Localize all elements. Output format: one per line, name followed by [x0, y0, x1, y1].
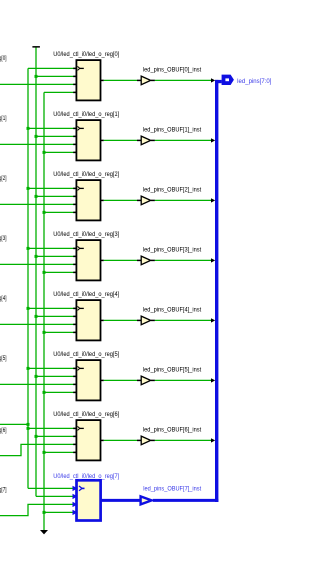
- junction B row 6: [35, 435, 38, 438]
- svg-text:g[7]: g[7]: [0, 487, 7, 493]
- svg-text:U0/led_ctl_i0/led_o_reg[6]: U0/led_ctl_i0/led_o_reg[6]: [53, 412, 119, 418]
- wire buffer output to bus row 1: [151, 139, 155, 141]
- junction A row 1: [27, 127, 30, 130]
- wire clock pin row 4: [28, 307, 77, 309]
- wire clock pin row 6: [28, 427, 77, 429]
- wire data pin3 row 6 from left edge (bend): [0, 444, 77, 455]
- svg-text:g[6]: g[6]: [0, 428, 7, 434]
- register U0/led_ctl_i0/led_o_reg[6]: [73, 420, 104, 460]
- wire clock pin row 5: [28, 367, 77, 369]
- junction A row 5: [27, 367, 30, 370]
- svg-text:led_pins[7:0]: led_pins[7:0]: [237, 79, 272, 85]
- junction A row 2: [27, 187, 30, 190]
- junction C row 4: [43, 331, 46, 334]
- junction B row 4: [35, 315, 38, 318]
- junction C row 7: [43, 511, 46, 514]
- wire clock pin row 2: [28, 187, 77, 189]
- buffer led_pins_OBUF[0]_inst: [141, 76, 151, 85]
- junction C row 1: [43, 151, 46, 154]
- junction A row 6: [27, 427, 30, 430]
- junction B row 2: [35, 195, 38, 198]
- buffer led_pins_OBUF[6]_inst: [141, 436, 151, 445]
- wire clk feed from left edge: [0, 423, 28, 425]
- svg-text:g[1]: g[1]: [0, 116, 7, 122]
- wire pin2 row 6: [36, 435, 77, 437]
- wire buffer output to bus row 6: [151, 439, 155, 441]
- wire net vertical B: [35, 47, 37, 496]
- wire pin2 row 0: [36, 75, 77, 77]
- wire register output to buffer row 0: [104, 79, 137, 81]
- port led_pins[7:0] symbol: [222, 75, 234, 85]
- wire clock pin row 7: [28, 487, 77, 489]
- wire net clk vertical A: [27, 68, 29, 488]
- wire pin2 row 2: [36, 195, 77, 197]
- svg-text:U0/led_ctl_i0/led_o_reg[0]: U0/led_ctl_i0/led_o_reg[0]: [53, 52, 119, 58]
- wire pin2 row 5: [36, 375, 77, 377]
- wire data pin3 row 3 from left edge: [0, 263, 77, 265]
- arrowhead into bus row 2: [211, 198, 215, 202]
- register U0/led_ctl_i0/led_o_reg[4]: [73, 300, 104, 340]
- svg-text:g[5]: g[5]: [0, 356, 7, 362]
- arrowhead into bus row 6: [211, 438, 215, 442]
- wire pin4 row 6: [44, 451, 77, 453]
- off-page arrow (net C bottom): [40, 530, 48, 534]
- svg-text:led_pins_OBUF[3]_inst: led_pins_OBUF[3]_inst: [143, 248, 202, 254]
- svg-text:U0/led_ctl_i0/led_o_reg[7]: U0/led_ctl_i0/led_o_reg[7]: [53, 474, 119, 480]
- register U0/led_ctl_i0/led_o_reg[2]: [73, 180, 104, 220]
- wire register output to buffer row 1: [104, 139, 137, 141]
- junction B row 1: [35, 135, 38, 138]
- wire data pin3 row 0 from left edge: [0, 83, 77, 85]
- svg-text:led_pins_OBUF[0]_inst: led_pins_OBUF[0]_inst: [143, 68, 202, 74]
- wire pin4 row 1: [44, 151, 77, 153]
- junction B row 5: [35, 375, 38, 378]
- junction C row 2: [43, 211, 46, 214]
- arrowhead into bus row 1: [211, 138, 215, 142]
- svg-text:led_pins_OBUF[2]_inst: led_pins_OBUF[2]_inst: [143, 188, 202, 194]
- junction clk feed on A: [27, 423, 30, 426]
- wire pin4 row 0: [44, 91, 77, 93]
- register U0/led_ctl_i0/led_o_reg[0]: [73, 60, 104, 100]
- svg-text:led_pins_OBUF[5]_inst: led_pins_OBUF[5]_inst: [143, 368, 202, 374]
- off-page T terminal (net B top): [32, 46, 40, 48]
- arrowhead into bus row 3: [211, 258, 215, 262]
- svg-text:led_pins_OBUF[4]_inst: led_pins_OBUF[4]_inst: [143, 308, 202, 314]
- buffer led_pins_OBUF[5]_inst: [141, 376, 151, 385]
- svg-text:g[2]: g[2]: [0, 176, 7, 182]
- svg-text:g[4]: g[4]: [0, 296, 7, 302]
- svg-text:g[3]: g[3]: [0, 236, 7, 242]
- wire data pin3 row 5 from left edge: [0, 383, 77, 385]
- register U0/led_ctl_i0/led_o_reg[5]: [73, 360, 104, 400]
- svg-text:U0/led_ctl_i0/led_o_reg[2]: U0/led_ctl_i0/led_o_reg[2]: [53, 172, 119, 178]
- buffer led_pins_OBUF[4]_inst: [141, 316, 151, 325]
- buffer led_pins_OBUF[3]_inst: [141, 256, 151, 265]
- buffer led_pins_OBUF[7]_inst (selected): [141, 496, 152, 504]
- wire pin2 row 7: [36, 495, 77, 497]
- junction A row 4: [27, 307, 30, 310]
- wire buffer output to bus row 4: [151, 319, 155, 321]
- wire pin4 row 7: [44, 511, 77, 513]
- wire pin4 row 4: [44, 331, 77, 333]
- buffer led_pins_OBUF[1]_inst: [141, 136, 151, 145]
- wire clock pin row 3: [28, 247, 77, 249]
- wire data pin3 row 4 from left edge: [0, 323, 77, 325]
- wire register output to buffer row 4: [104, 319, 137, 321]
- wire buffer output to bus row 7 (selected): [153, 499, 219, 502]
- wire pin2 row 4: [36, 315, 77, 317]
- wire data pin3 row 1 from left edge: [0, 143, 77, 145]
- wire register output to buffer row 7 (selected): [102, 499, 141, 502]
- wire pin2 row 3: [36, 255, 77, 257]
- svg-text:U0/led_ctl_i0/led_o_reg[3]: U0/led_ctl_i0/led_o_reg[3]: [53, 232, 119, 238]
- wire pin4 row 5: [44, 391, 77, 393]
- wire clock pin row 0: [28, 67, 77, 69]
- arrowhead into bus row 0: [211, 78, 215, 82]
- junction A row 3: [27, 247, 30, 250]
- svg-text:led_pins_OBUF[1]_inst: led_pins_OBUF[1]_inst: [143, 128, 202, 134]
- wire register output to buffer row 3: [104, 259, 137, 261]
- wire data pin3 row 7 from left edge (bend): [0, 504, 77, 515]
- svg-text:g[0]: g[0]: [0, 56, 7, 62]
- svg-text:U0/led_ctl_i0/led_o_reg[4]: U0/led_ctl_i0/led_o_reg[4]: [53, 292, 119, 298]
- wire buffer output to bus row 3: [151, 259, 155, 261]
- wire pin2 row 1: [36, 135, 77, 137]
- wire net vertical C: [43, 92, 45, 530]
- bus top horizontal to port: [215, 80, 222, 83]
- junction B row 0: [35, 75, 38, 78]
- junction C row 5: [43, 391, 46, 394]
- wire buffer output to bus row 5: [151, 379, 155, 381]
- wire buffer output to bus row 2: [151, 199, 155, 201]
- wire register output to buffer row 5: [104, 379, 137, 381]
- junction B row 3: [35, 255, 38, 258]
- svg-text:U0/led_ctl_i0/led_o_reg[1]: U0/led_ctl_i0/led_o_reg[1]: [53, 112, 119, 118]
- arrowhead into bus row 4: [211, 318, 215, 322]
- wire data pin3 row 2 from left edge: [0, 203, 77, 205]
- wire pin4 row 2: [44, 211, 77, 213]
- register U0/led_ctl_i0/led_o_reg[1]: [73, 120, 104, 160]
- wire register output to buffer row 6: [104, 439, 137, 441]
- junction C row 3: [43, 271, 46, 274]
- wire pin4 row 3: [44, 271, 77, 273]
- arrowhead into bus row 5: [211, 378, 215, 382]
- wire register output to buffer row 2: [104, 199, 137, 201]
- svg-text:led_pins_OBUF[6]_inst: led_pins_OBUF[6]_inst: [143, 428, 202, 434]
- register U0/led_ctl_i0/led_o_reg[7]: [73, 480, 101, 520]
- wire buffer output to bus row 0: [151, 79, 155, 81]
- register U0/led_ctl_i0/led_o_reg[3]: [73, 240, 104, 280]
- svg-text:led_pins_OBUF[7]_inst: led_pins_OBUF[7]_inst: [143, 486, 201, 492]
- svg-text:U0/led_ctl_i0/led_o_reg[5]: U0/led_ctl_i0/led_o_reg[5]: [53, 352, 119, 358]
- buffer led_pins_OBUF[2]_inst: [141, 196, 151, 205]
- junction C row 6: [43, 451, 46, 454]
- wire clock pin row 1: [28, 127, 77, 129]
- bus led_pins vertical: [215, 80, 218, 502]
